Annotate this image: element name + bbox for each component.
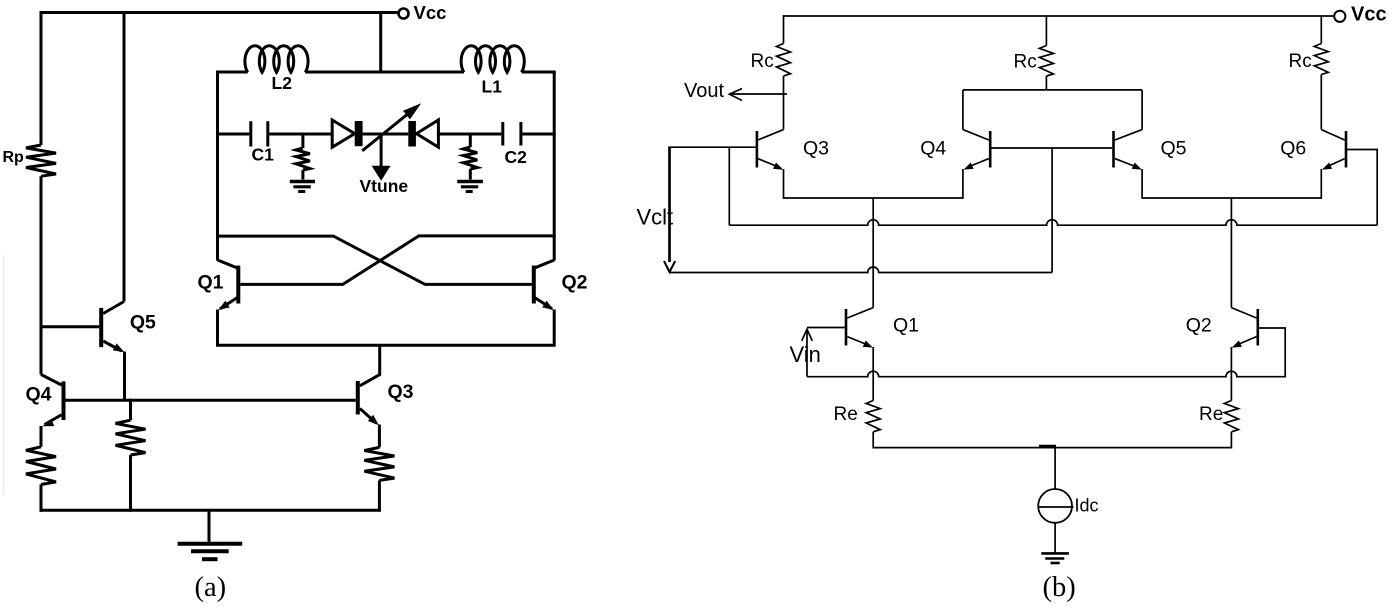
svg-text:L2: L2 (272, 73, 293, 93)
ground (tank left) (290, 180, 315, 183)
svg-text:Rc: Rc (1014, 51, 1037, 72)
svg-text:Vin: Vin (790, 342, 821, 367)
svg-text:Q2: Q2 (1186, 315, 1212, 337)
transistor Q2 (a) (532, 266, 536, 304)
wire: cross-coupling Q2 collector to Q1 base (240, 236, 555, 285)
svg-text:Q5: Q5 (1161, 138, 1187, 160)
resistor Re left (866, 401, 880, 432)
resistor Rp (26, 145, 56, 176)
resistor Re right (1224, 401, 1238, 432)
svg-text:(b): (b) (1043, 572, 1076, 603)
svg-text:Rp: Rp (3, 149, 25, 166)
svg-text:Q5: Q5 (130, 312, 156, 334)
resistor shunt 2 (463, 147, 477, 169)
svg-text:Vcc: Vcc (414, 2, 447, 23)
faint scan artifact line (3, 255, 5, 495)
variable arrow across varactors (362, 113, 409, 151)
resistor shunt 1 (296, 148, 310, 170)
transistor Q5 (a) (99, 308, 103, 347)
wire: tail to Q3 (360, 345, 380, 386)
svg-text:Vcc: Vcc (1351, 4, 1387, 26)
wire: Q2 base loop (1259, 328, 1285, 378)
svg-text:Re: Re (834, 404, 858, 425)
svg-text:Rc: Rc (751, 51, 774, 72)
wire: Q5 base (40, 325, 100, 328)
wire: Q1 emitter drop (872, 347, 874, 401)
wire: Vin return bus y=376.7 with hops (807, 371, 1285, 377)
inductor L1 (461, 46, 524, 73)
ground (b) (1041, 552, 1069, 555)
svg-text:Rc: Rc (1289, 51, 1312, 72)
transistor Q1 (b) (845, 309, 848, 346)
svg-text:Q2: Q2 (562, 272, 588, 294)
resistor under Q3 (364, 447, 394, 480)
wire: Q5 emitter drop (123, 352, 126, 402)
resistor Rc right (1320, 16, 1322, 44)
wire: Vclt bus y=272.5 with hop (670, 267, 1053, 273)
svg-text:Vclt: Vclt (637, 204, 674, 229)
wire: Q3-Q4 emitter rail (784, 197, 963, 199)
varactor D1 (332, 120, 355, 147)
current source Idc (1054, 448, 1056, 489)
wire: bottom rail (a) (40, 509, 380, 512)
wire: Q5 emitter drop (1141, 169, 1143, 199)
transistor Q3 (b) (756, 131, 759, 168)
transistor Q3 (a) (356, 381, 360, 415)
svg-text:Q3: Q3 (803, 138, 829, 160)
transistor Q1 (a) (236, 266, 240, 304)
resistor middle (bias) (129, 399, 132, 421)
wire: Q2 emitter drop (553, 310, 556, 347)
wire: left vertical from rail to Rp (40, 11, 43, 145)
capacitor C1 (249, 121, 252, 146)
wire: Q4-Q5 base tie (992, 147, 1113, 149)
wire: top supply rail (b) (784, 15, 1334, 17)
terminal Vcc (b) (1334, 11, 1345, 22)
wire: left vertical Rp to Q4 collector (40, 176, 43, 374)
wire: Q5 collector vertical from top rail (123, 11, 126, 302)
transistor Q5 (b) (1112, 131, 1115, 168)
resistor Rc middle (1045, 16, 1047, 46)
wire: Q1 collector vertical (872, 198, 874, 308)
Vclt line with arrow (668, 147, 671, 263)
svg-text:Idc: Idc (1075, 495, 1099, 515)
wire: tank box right edge (553, 72, 556, 261)
wire: row segment 3 (438, 133, 501, 136)
svg-text:C1: C1 (252, 145, 275, 165)
wire: tank box left edge (216, 72, 219, 261)
svg-text:Q3: Q3 (388, 381, 414, 403)
varactor D2 (408, 121, 416, 147)
transistor Q4 (a) (62, 381, 66, 420)
svg-text:Vtune: Vtune (360, 176, 409, 196)
svg-text:(a): (a) (195, 572, 227, 603)
wire: Q3 base (670, 146, 756, 148)
wire: Q6 base loop (1347, 150, 1377, 226)
resistor under Q4 (26, 447, 56, 485)
ground (a) (208, 510, 211, 542)
wire: Q3 base junction drop (728, 147, 730, 225)
wire: Q2 emitter drop (1230, 347, 1232, 401)
wire: Q4/Q3 base rail (66, 399, 356, 402)
wire: rail overlap tick (1039, 445, 1056, 447)
Vout tap with arrow (732, 93, 787, 95)
wire: Q5 collector vertical (1141, 90, 1143, 130)
wire: tank top edge centre segment (305, 71, 464, 74)
svg-text:Q1: Q1 (198, 271, 224, 293)
wire: Q4-Q5 collector bridge (963, 89, 1142, 91)
wire: shunt stub 1 (301, 134, 304, 148)
transistor Q4 (b) (989, 131, 992, 168)
Vtune arrow (380, 134, 383, 166)
wire: row segment between varactors (363, 133, 409, 136)
wire: Q1 base (807, 327, 845, 329)
wire: base tie drop to Vclt bus (1051, 148, 1053, 273)
svg-text:Q4: Q4 (26, 383, 52, 405)
wire: shunt stub 2 (469, 134, 472, 147)
wire: cross-coupled emitter rail (218, 344, 555, 347)
svg-text:Q6: Q6 (1280, 138, 1306, 160)
wire: Q6 emitter drop (1320, 169, 1322, 199)
wire: tank centre feed vertical from top rail (379, 13, 382, 74)
transistor Q6 (b) (1345, 131, 1348, 168)
wire: bottom rail (b) (873, 447, 1231, 449)
wire: tank top edge right segment (522, 72, 555, 74)
terminal Vcc (a) (399, 9, 409, 19)
svg-text:Q1: Q1 (893, 315, 919, 337)
Vin arrow (802, 329, 813, 341)
capacitor C2 (501, 122, 504, 146)
wire: tank top edge left segment (218, 72, 248, 74)
wire: varactor row segment 1 (216, 133, 249, 136)
wire: row segment 2 (269, 133, 332, 136)
wire: Q3 emitter drop (378, 425, 381, 448)
resistor Rc left (783, 15, 785, 44)
wire: row segment 4 (522, 133, 555, 136)
svg-text:Re: Re (1199, 404, 1223, 425)
wire: cross-coupling Q1 collector to Q2 base (216, 236, 532, 284)
svg-text:C2: C2 (505, 147, 528, 167)
wire: Q2 collector vertical (1230, 198, 1232, 308)
svg-text:L1: L1 (482, 76, 503, 96)
wire: base bus y=225 with hops (729, 220, 1377, 226)
ground (tank right) (457, 180, 483, 183)
inductor L2 (245, 46, 308, 73)
wire: top supply rail (a) (40, 11, 398, 14)
wire: Q5-Q6 emitter rail (1142, 197, 1321, 199)
wire: Q4 emitter drop (962, 169, 964, 199)
transistor Q2 (b) (1257, 309, 1260, 346)
wire: Q4 collector vertical (962, 90, 964, 130)
wire: Q3 emitter drop (783, 169, 785, 199)
wire: Q1 emitter drop (216, 310, 219, 347)
wire: Q4 emitter drop (40, 426, 43, 447)
svg-text:Vout: Vout (684, 80, 724, 102)
svg-text:Q4: Q4 (920, 138, 946, 160)
